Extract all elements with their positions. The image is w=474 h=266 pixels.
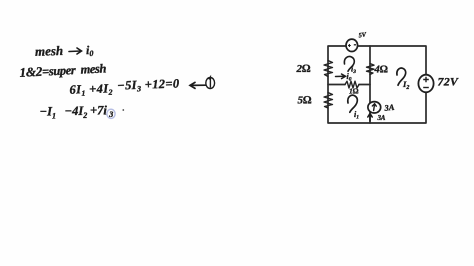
arrow below circle on wire [368,114,372,122]
equation line 4: -I1 -4I2 +7i3 [40,104,114,121]
voltage source 72V (right branch) [418,75,433,93]
circled 1 [206,77,215,89]
mesh current loop i3 [344,56,354,71]
mesh current loop i2 (right mesh) [397,68,406,85]
outer rectangle wire [328,46,426,123]
branch current arrow i0 [336,74,346,79]
resistor 4Ω (middle branch) [367,64,375,75]
arrow to circled 1 [190,82,206,88]
resistor 5Ω (left branch) [324,93,333,109]
equation line 1: mesh -> i0 [35,42,94,60]
middle horizontal wire [328,84,345,86]
mesh current loop i1 [348,95,358,112]
arrow of line 1 [69,48,82,54]
small dot [122,109,124,111]
blue highlight circle [107,109,115,118]
equation line 3: 6I1+4I2-5I3+12=0 [69,76,180,98]
resistor 1Ω (horizontal, middle wire) [345,81,359,88]
equation line 2: 1&2 = super mesh [19,60,107,80]
current source 3A (middle branch) [368,102,381,113]
voltage source 5V (top wire) [346,39,358,51]
resistor 2Ω (left branch) [324,61,333,77]
middle vertical wire [369,46,371,123]
